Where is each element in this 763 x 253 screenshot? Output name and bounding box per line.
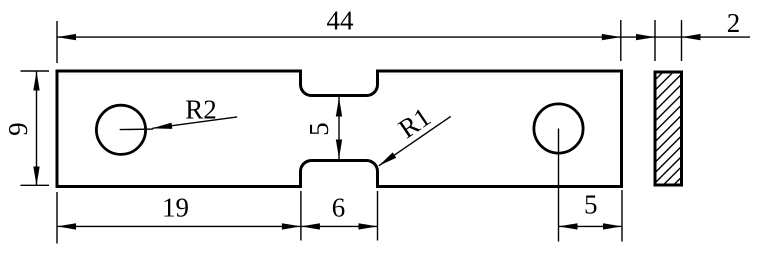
svg-text:R2: R2	[185, 94, 217, 124]
hole left (R2)	[96, 105, 145, 154]
extension below right edge	[621, 190, 623, 242]
hatch lines	[650, 45, 690, 209]
svg-text:6: 6	[332, 193, 346, 223]
svg-text:5: 5	[304, 122, 334, 136]
extension line left of 2	[654, 20, 656, 61]
svg-text:19: 19	[162, 193, 189, 223]
arrow 5 bottom left	[559, 223, 578, 229]
tick top of 9	[21, 70, 50, 72]
extension line right of 44	[620, 20, 622, 61]
arrow 2 right (outside)	[682, 34, 701, 40]
arrow 19 right	[282, 223, 301, 229]
svg-text:5: 5	[584, 190, 598, 220]
dim line 44 and 2 (top horizontal)	[57, 36, 750, 38]
svg-text:9: 9	[3, 122, 33, 136]
center line right hole	[558, 129, 560, 242]
svg-text:R1: R1	[393, 102, 436, 144]
leader R1 line	[379, 116, 451, 165]
svg-text:44: 44	[327, 5, 355, 35]
arrow 9 bottom	[33, 167, 39, 186]
dim line 9 (left vertical)	[36, 72, 38, 186]
arrow R1 leader	[379, 152, 397, 165]
dim line 5 (middle vertical)	[338, 97, 340, 159]
extension below left edge	[56, 192, 58, 244]
leader R2 line	[153, 117, 238, 128]
arrow 2 left (outside)	[636, 34, 655, 40]
arrow 44 left	[57, 34, 76, 40]
dim line 5 (bottom right)	[559, 225, 623, 227]
arrow 44 right	[602, 34, 621, 40]
extension line right of 2	[681, 20, 683, 61]
extension below notch right	[377, 191, 379, 241]
plate outline	[57, 71, 622, 187]
extension below notch left	[300, 191, 302, 241]
arrow 5 middle bottom	[336, 140, 342, 159]
extension line left of 44	[56, 21, 58, 63]
arrow 6 right	[359, 223, 378, 229]
arrow 5 middle top	[336, 98, 342, 117]
leader R2 radius tick	[120, 128, 153, 131]
hole right	[534, 104, 583, 153]
svg-text:2: 2	[727, 8, 741, 38]
arrow 9 top	[33, 72, 39, 91]
dim line 6	[301, 225, 378, 227]
tick bottom of 9	[21, 184, 50, 186]
arrow 6 left	[301, 223, 320, 229]
arrow 5 bottom right	[603, 223, 622, 229]
side view rectangle	[655, 72, 682, 185]
arrow 19 left	[57, 223, 76, 229]
arrow R2 leader	[152, 123, 173, 129]
dim line 19	[57, 225, 301, 227]
